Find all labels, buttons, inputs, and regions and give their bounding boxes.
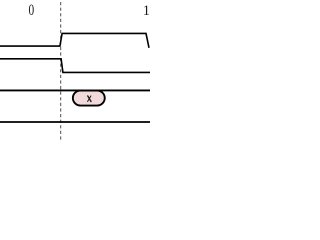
svg-text:0: 0 [28, 1, 34, 18]
svg-text:1: 1 [143, 2, 150, 18]
